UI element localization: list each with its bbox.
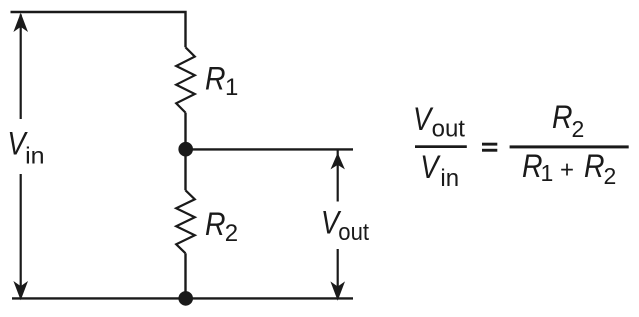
svg-text:1: 1 [541, 160, 554, 186]
svg-text:R: R [584, 148, 605, 184]
Vin measurement arrow, lower shaft with down arrowhead [13, 174, 28, 300]
formula fraction bar (left) [415, 145, 467, 148]
wire: R2 bottom lead to node B [184, 253, 186, 293]
svg-text:1: 1 [225, 74, 238, 101]
node B: junction of R2 and bottom rail [178, 291, 193, 306]
label R1 [205, 60, 238, 101]
wire: node A to Vout tap [186, 148, 354, 150]
svg-text:in: in [440, 165, 459, 192]
svg-text:2: 2 [604, 163, 617, 189]
label Vin [7, 126, 44, 169]
formula denominator Vin [420, 149, 459, 192]
formula numerator R2 [552, 99, 584, 142]
resistor R2 [176, 190, 195, 253]
wire: node A to R2 top lead [184, 154, 186, 190]
svg-text:2: 2 [225, 220, 238, 247]
node A: junction of R1, R2 and Vout tap [178, 142, 193, 157]
resistor R1 [176, 47, 195, 112]
wire: top rail from Vin to R1 [11, 12, 186, 47]
formula denominator R1 + R2 [522, 148, 616, 189]
svg-text:V: V [413, 101, 434, 137]
svg-text:R: R [205, 60, 226, 96]
label R2 [205, 206, 238, 247]
svg-text:R: R [552, 99, 573, 135]
svg-text:2: 2 [572, 116, 585, 142]
svg-text:R: R [522, 148, 543, 184]
svg-text:+: + [560, 157, 574, 184]
Vout measurement arrow, upper shaft with up arrowhead [331, 151, 345, 202]
svg-text:R: R [205, 206, 226, 242]
formula numerator Vout [413, 101, 465, 143]
label Vout [321, 205, 369, 247]
wire: bottom rail [12, 297, 353, 299]
formula fraction bar (right) [510, 145, 629, 148]
equals sign [482, 143, 497, 152]
svg-text:in: in [25, 142, 44, 168]
Vin measurement arrow, upper shaft with up arrowhead [13, 13, 28, 119]
svg-text:out: out [432, 115, 466, 142]
svg-text:V: V [420, 149, 441, 185]
wire: R1 bottom lead to node A [184, 113, 186, 143]
svg-text:out: out [338, 219, 369, 246]
Vout measurement arrow, lower shaft with down arrowhead [330, 249, 345, 301]
